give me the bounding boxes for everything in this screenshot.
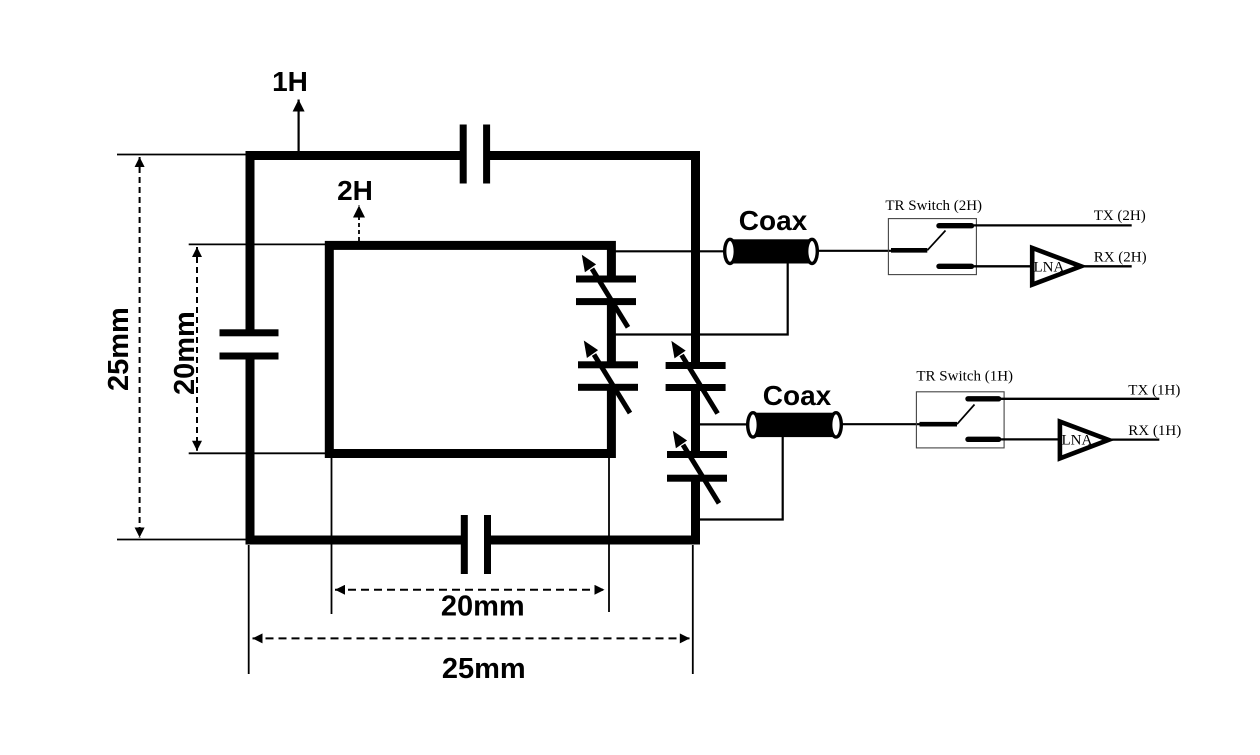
- dimension extension line bottom-left (25mm bottom): [117, 539, 250, 541]
- svg-text:RX (1H): RX (1H): [1128, 423, 1181, 439]
- wire TX 1H: [1001, 398, 1159, 400]
- svg-text:20mm: 20mm: [169, 311, 201, 395]
- wire bottom coax shield drop: [699, 436, 783, 520]
- svg-text:Coax: Coax: [763, 380, 832, 411]
- wire bottom coax to TR switch (1H): [840, 423, 935, 425]
- svg-text:2H: 2H: [337, 175, 373, 206]
- svg-text:RX (2H): RX (2H): [1094, 249, 1147, 265]
- svg-text:20mm: 20mm: [441, 591, 525, 623]
- dimension extension line inner bottom-right vertical: [608, 458, 610, 612]
- wire top coax to TR switch (2H): [816, 250, 905, 252]
- variable capacitor CV4 arrow: [673, 431, 719, 504]
- dimension extension line outer bottom-right vertical: [692, 545, 694, 674]
- TR switch 2H arm: [927, 231, 945, 251]
- svg-text:25mm: 25mm: [442, 653, 526, 685]
- svg-text:1H: 1H: [272, 66, 308, 97]
- wire top coax shield drop: [613, 262, 788, 335]
- node 1H arrow: [298, 100, 300, 152]
- svg-text:Coax: Coax: [739, 205, 808, 236]
- variable capacitor CV4 plates: [667, 451, 727, 458]
- capacitor C3 bottom (gap): [464, 534, 488, 547]
- inner coil loop 20mm: [329, 245, 611, 453]
- variable capacitor CV3 arrow: [671, 341, 717, 414]
- outer coil loop 25mm: [250, 156, 696, 541]
- svg-text:LNA: LNA: [1034, 259, 1065, 275]
- variable capacitor CV3 outer loop (gap): [690, 366, 703, 386]
- dimension line 20mm vertical: [196, 247, 198, 451]
- dimension extension line inner-top (20mm left top): [189, 243, 329, 245]
- variable capacitor CV2 inner loop (gap): [605, 366, 618, 386]
- coax 2H body: [725, 239, 818, 263]
- variable capacitor CV1 plates: [576, 276, 636, 283]
- svg-text:25mm: 25mm: [103, 307, 135, 391]
- TR switch 2H RX throw contact: [939, 264, 972, 269]
- svg-text:TR Switch (2H): TR Switch (2H): [885, 198, 982, 214]
- svg-text:TX (2H): TX (2H): [1094, 208, 1146, 224]
- variable capacitor CV4 outer loop (gap): [690, 455, 703, 475]
- wire outer loop to bottom coax: [698, 423, 755, 425]
- capacitor C1 top plates: [460, 125, 467, 184]
- capacitor C1 top (gap): [463, 148, 487, 163]
- dimension extension line outer bottom-left vertical: [248, 545, 250, 674]
- amplifier LNA 2H: [1032, 248, 1081, 285]
- node 2H arrow (dashed): [358, 206, 360, 242]
- variable capacitor CV2 plates: [578, 361, 638, 368]
- TR switch 2H box: [888, 219, 976, 275]
- capacitor C2 left (gap): [244, 333, 257, 357]
- coax 1H body: [748, 413, 842, 437]
- variable capacitor CV3 plates: [666, 362, 726, 369]
- TR switch 1H TX throw contact: [968, 396, 999, 401]
- dimension extension line inner-bottom (20mm left bottom): [189, 452, 329, 454]
- TR switch 2H TX throw contact: [939, 223, 972, 228]
- wire RX 1H: [1111, 438, 1159, 440]
- wire inner loop to top coax: [611, 250, 732, 252]
- svg-text:TX (1H): TX (1H): [1128, 382, 1180, 398]
- variable capacitor CV1 arrow: [582, 255, 628, 328]
- capacitor C3 bottom plates: [461, 515, 468, 574]
- TR switch 1H pole contact: [920, 422, 958, 427]
- dimension line 25mm vertical: [139, 157, 141, 538]
- amplifier LNA 1H: [1060, 422, 1109, 459]
- TR switch 1H RX throw contact: [968, 437, 999, 442]
- wire switch to LNA 1H: [1001, 438, 1061, 440]
- TR switch 1H box: [916, 392, 1004, 448]
- dimension line 25mm horizontal bottom: [253, 637, 690, 639]
- wire TX 2H: [974, 224, 1132, 226]
- dimension line 20mm horizontal bottom: [335, 589, 605, 591]
- svg-text:TR Switch (1H): TR Switch (1H): [916, 369, 1013, 385]
- wire RX 2H: [1084, 265, 1132, 267]
- wire switch to LNA 2H: [974, 265, 1033, 267]
- TR switch 2H pole contact: [891, 248, 927, 253]
- capacitor C2 left plates: [220, 329, 279, 336]
- dimension extension line top-left (25mm top): [117, 154, 250, 156]
- svg-text:LNA: LNA: [1062, 432, 1093, 448]
- TR switch 1H arm: [957, 405, 975, 425]
- variable capacitor CV1 inner loop (gap): [605, 280, 618, 300]
- dimension extension line inner bottom-left vertical: [331, 458, 333, 614]
- variable capacitor CV2 arrow: [584, 340, 630, 413]
